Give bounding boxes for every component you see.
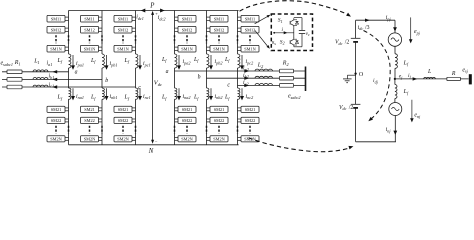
submodule SM12 (upper arm phase b conv2) bbox=[210, 26, 228, 33]
svg-text:R: R bbox=[451, 71, 456, 77]
current arrow i_nc2 bbox=[241, 88, 243, 97]
svg-text:−: − bbox=[155, 139, 158, 144]
ellipsis dots (lower arm phase b conv2) bbox=[218, 126, 220, 134]
svg-text:ina1: ina1 bbox=[76, 94, 84, 100]
wire phase c line left AC side bbox=[2, 86, 136, 88]
stub wires SM2N bbox=[65, 136, 69, 138]
node e_j junction bbox=[394, 78, 396, 80]
ground symbol bbox=[347, 74, 355, 76]
switch S1 (IGBT with diode) bbox=[293, 18, 295, 20]
arm inductor L_f upper phase c conv2 bbox=[238, 54, 240, 68]
svg-text:SM2N: SM2N bbox=[117, 137, 128, 142]
stub wires SM12 bbox=[175, 27, 179, 29]
arm inductor L_f lower phase c conv1 bbox=[136, 88, 138, 99]
submodule SM21 (lower arm phase c conv1) bbox=[114, 106, 132, 112]
inductor L1 phase a bbox=[33, 70, 48, 72]
current arrow i_pc1 bbox=[139, 55, 141, 67]
current arrow i_c2 bbox=[244, 84, 249, 87]
current arrow i_pa1 bbox=[72, 55, 74, 67]
wire phase a line left AC side bbox=[2, 71, 69, 73]
svg-text:O: O bbox=[359, 72, 364, 78]
switch S2 (IGBT with diode) bbox=[293, 38, 295, 40]
wire leg middle phase b conv1 bbox=[101, 68, 103, 88]
stub wires SM11 bbox=[99, 16, 103, 18]
arm inductor L_f upper (equivalent) bbox=[394, 46, 396, 54]
wire to node e_j bbox=[394, 68, 396, 79]
svg-text:ia2: ia2 bbox=[243, 66, 249, 72]
wire leg chain upper arm phase c converter 1 bbox=[135, 11, 137, 55]
SM input wire with current arrow i bbox=[274, 32, 294, 34]
submodule SM22 (lower arm phase b conv2) bbox=[210, 117, 228, 123]
svg-text:SM22: SM22 bbox=[51, 118, 62, 123]
AC source e_pj (upper arm) bbox=[388, 33, 401, 46]
svg-text:SM12: SM12 bbox=[84, 28, 95, 33]
svg-text:SM21: SM21 bbox=[118, 107, 129, 112]
svg-text:SM2N: SM2N bbox=[181, 137, 192, 142]
submodule SM2N (lower arm phase c conv1) bbox=[114, 136, 132, 142]
svg-text:SM22: SM22 bbox=[245, 118, 256, 123]
current arrow i_dc/3 bbox=[365, 19, 370, 22]
voltage arrow e_nj bbox=[411, 100, 413, 120]
svg-text:ipc2: ipc2 bbox=[246, 59, 254, 65]
wire N bus (bottom DC rail) bbox=[69, 144, 239, 146]
submodule SM11 (upper arm phase a conv1) bbox=[47, 15, 65, 22]
svg-text:esabc2: esabc2 bbox=[288, 94, 300, 100]
DC source V_dc/2 upper bbox=[351, 37, 361, 39]
svg-text:Lf: Lf bbox=[161, 57, 167, 63]
svg-text:Lf: Lf bbox=[161, 95, 167, 101]
wire leg chain lower arm phase a conv1 bbox=[68, 99, 70, 145]
svg-text:SM22: SM22 bbox=[118, 118, 129, 123]
inductor L output bbox=[424, 77, 436, 79]
svg-text:ipa1: ipa1 bbox=[76, 61, 84, 67]
svg-text:epj: epj bbox=[414, 29, 421, 35]
svg-text:inj: inj bbox=[386, 127, 392, 133]
arm inductor L_f upper phase a conv1 bbox=[69, 54, 71, 68]
submodule SM11 (upper arm phase c conv2) bbox=[241, 15, 259, 22]
svg-text:SM12: SM12 bbox=[118, 28, 129, 33]
svg-text:SM1N: SM1N bbox=[244, 47, 255, 52]
svg-text:ic2: ic2 bbox=[243, 80, 249, 86]
svg-text:/3: /3 bbox=[365, 25, 370, 31]
svg-text:SM11: SM11 bbox=[51, 17, 61, 22]
svg-text:inc1: inc1 bbox=[143, 94, 151, 100]
inductor L1 phase b bbox=[33, 78, 48, 80]
wire P bus (top DC rail) bbox=[69, 10, 239, 12]
current arrow i_b1 bbox=[52, 78, 57, 81]
stub wires SM11 bbox=[132, 16, 136, 18]
current arrow i_pa2 bbox=[178, 55, 180, 67]
svg-text:S1: S1 bbox=[278, 18, 283, 24]
ellipsis dots (upper arm phase b conv1) bbox=[89, 35, 91, 43]
svg-text:a: a bbox=[166, 69, 169, 75]
wire leg chain upper arm phase a converter 2 bbox=[174, 11, 176, 55]
stub wires SM21 bbox=[207, 107, 211, 109]
current arrow i_dc2 on P bus bbox=[160, 9, 165, 13]
svg-text:Lf: Lf bbox=[403, 89, 409, 95]
stub wires SM12 bbox=[99, 27, 103, 29]
ellipsis dots (upper arm phase c conv2) bbox=[249, 35, 251, 43]
svg-text:b: b bbox=[198, 74, 201, 80]
wire phase a line right AC side bbox=[175, 70, 306, 72]
svg-text:SM2N: SM2N bbox=[213, 137, 224, 142]
svg-text:idc: idc bbox=[358, 25, 364, 31]
arm inductor L_f upper phase b conv2 bbox=[207, 54, 209, 68]
dashed pointer arc top (phase leg to equivalent circuit) bbox=[240, 1, 349, 15]
svg-text:ipc1: ipc1 bbox=[143, 61, 151, 67]
inductor L2 phase b bbox=[255, 76, 273, 78]
svg-text:ina2: ina2 bbox=[183, 94, 191, 100]
wire leg middle phase c conv2 bbox=[237, 68, 239, 88]
capacitor C bbox=[301, 18, 303, 31]
current arrow i_pb2 bbox=[210, 55, 212, 67]
current arrow i_na1 bbox=[72, 88, 74, 97]
wire lower arm with current arrow i_nj bbox=[394, 116, 396, 142]
submodule SM22 (lower arm phase c conv1) bbox=[114, 117, 132, 123]
submodule SM22 (lower arm phase a conv1) bbox=[47, 117, 65, 123]
ellipsis dots (lower arm phase a conv1) bbox=[55, 126, 57, 134]
svg-text:L: L bbox=[427, 69, 431, 75]
svg-text:ipb2: ipb2 bbox=[215, 59, 223, 65]
wire equivalent circuit top rail bbox=[356, 19, 395, 21]
submodule SM1N (upper arm phase a conv1) bbox=[47, 45, 65, 52]
svg-text:SM1N: SM1N bbox=[117, 47, 128, 52]
submodule SM22 (lower arm phase c conv2) bbox=[241, 117, 259, 123]
svg-text:Lf: Lf bbox=[57, 95, 63, 101]
svg-text:SM2N: SM2N bbox=[50, 137, 61, 142]
submodule SM2N (lower arm phase a conv2) bbox=[178, 136, 196, 142]
stub wires SM2N bbox=[132, 136, 136, 138]
stub wires SM22 bbox=[99, 118, 103, 120]
svg-text:N: N bbox=[148, 148, 154, 155]
submodule SM2N (lower arm phase b conv1) bbox=[81, 136, 99, 142]
svg-text:Lf: Lf bbox=[403, 60, 409, 66]
submodule SM11 (upper arm phase a conv2) bbox=[178, 15, 196, 22]
svg-text:SM11: SM11 bbox=[214, 17, 224, 22]
submodule SM22 (lower arm phase b conv1) bbox=[81, 117, 99, 123]
submodule SM12 (upper arm phase c conv2) bbox=[241, 26, 259, 33]
stub wires SM1N bbox=[99, 46, 103, 48]
resistor R output bbox=[447, 77, 461, 80]
svg-text:a: a bbox=[75, 69, 78, 75]
submodule SM21 (lower arm phase c conv2) bbox=[241, 106, 259, 112]
stub wires SM22 bbox=[207, 118, 211, 120]
svg-text:ipj: ipj bbox=[386, 15, 392, 21]
svg-text:+: + bbox=[155, 11, 158, 16]
wire leg chain upper arm phase c converter 2 bbox=[237, 11, 239, 55]
submodule SM12 (upper arm phase c conv1) bbox=[114, 26, 132, 33]
svg-text:esj: esj bbox=[462, 67, 468, 73]
wire to AC source lower bbox=[394, 99, 396, 103]
wire upper arm with current arrow i_pj bbox=[394, 20, 396, 33]
submodule SM1N (upper arm phase c conv1) bbox=[114, 45, 132, 52]
svg-text:SM1N: SM1N bbox=[213, 47, 224, 52]
svg-text:Lf: Lf bbox=[90, 58, 96, 64]
voltage arrow e_pj bbox=[410, 17, 412, 40]
arm inductor L_f upper phase c conv1 bbox=[136, 54, 138, 68]
arm inductor L_f lower phase b conv2 bbox=[207, 88, 209, 99]
resistor R1 phase b bbox=[7, 78, 22, 82]
svg-text:SM2N: SM2N bbox=[84, 137, 95, 142]
ellipsis dots (upper arm phase b conv2) bbox=[218, 35, 220, 43]
current arrow i_pb1 bbox=[106, 55, 108, 67]
svg-text:ib2: ib2 bbox=[243, 73, 249, 79]
stub wires SM22 bbox=[175, 118, 179, 120]
svg-text:SM22: SM22 bbox=[84, 118, 95, 123]
current arrow i_c1 bbox=[52, 85, 57, 88]
svg-text:SM21: SM21 bbox=[84, 107, 95, 112]
wire lower arm from node bbox=[394, 79, 396, 85]
current arrow i_b2 bbox=[244, 77, 249, 80]
stub wires SM2N bbox=[175, 136, 179, 138]
terminal bar e_sj bbox=[469, 74, 472, 84]
arm inductor L_f lower phase a conv1 bbox=[69, 88, 71, 99]
current arrow i_dc1 on P bus bbox=[141, 9, 146, 13]
submodule SM11 (upper arm phase c conv1) bbox=[114, 15, 132, 22]
arm inductor L_f lower (equivalent) bbox=[395, 85, 397, 99]
wire equivalent circuit bottom rail bbox=[356, 141, 396, 143]
svg-text:/2: /2 bbox=[349, 105, 354, 111]
wire leg chain lower arm phase b conv1 bbox=[101, 99, 103, 145]
svg-text:ia1: ia1 bbox=[47, 61, 53, 67]
submodule SM12 (upper arm phase b conv1) bbox=[81, 26, 99, 33]
svg-text:SM11: SM11 bbox=[118, 17, 128, 22]
current arrow i_na2 bbox=[178, 88, 180, 97]
svg-text:c: c bbox=[138, 85, 141, 91]
svg-text:Vdc: Vdc bbox=[339, 105, 347, 111]
resistor R2 phase a bbox=[280, 69, 294, 73]
ellipsis dots (upper arm phase a conv2) bbox=[186, 35, 188, 43]
stub wires SM11 bbox=[207, 16, 211, 18]
ellipsis dots (lower arm phase a conv2) bbox=[186, 126, 188, 134]
inductor L2 phase c bbox=[255, 84, 273, 86]
stub wires SM2N bbox=[207, 136, 211, 138]
stub wires SM12 bbox=[207, 27, 211, 29]
stub wires SM11 bbox=[65, 16, 69, 18]
resistor R2 phase b bbox=[280, 76, 294, 80]
submodule SM1N (upper arm phase a conv2) bbox=[178, 45, 196, 52]
stub wires SM12 bbox=[132, 27, 136, 29]
svg-text:Lf: Lf bbox=[193, 57, 199, 63]
wire equivalent circuit left rail middle bbox=[355, 42, 357, 104]
current arrow i_a2 bbox=[244, 69, 249, 72]
dashed circulating current arc i_dj bbox=[364, 31, 391, 120]
wire leg middle phase b conv2 bbox=[206, 68, 208, 88]
wire phase b line right AC side bbox=[207, 77, 306, 79]
stub wires SM22 bbox=[238, 118, 242, 120]
current arrow i_nb2 bbox=[210, 88, 212, 97]
wire leg chain lower arm phase b conv2 bbox=[206, 99, 208, 145]
svg-text:SM21: SM21 bbox=[182, 107, 193, 112]
svg-text:ipa2: ipa2 bbox=[183, 59, 191, 65]
wire leg middle phase a conv1 bbox=[68, 68, 70, 88]
arm inductor L_f lower phase a conv2 bbox=[175, 88, 177, 99]
ellipsis dots (lower arm phase b conv1) bbox=[89, 126, 91, 134]
DC source V_dc/2 lower bbox=[351, 103, 361, 105]
stub wires SM1N bbox=[207, 46, 211, 48]
svg-text:Lf: Lf bbox=[57, 58, 63, 64]
resistor R1 phase c bbox=[7, 85, 22, 89]
svg-text:SM1N: SM1N bbox=[50, 47, 61, 52]
ellipsis dots (upper arm phase a conv1) bbox=[55, 35, 57, 43]
SM rail wires bbox=[293, 27, 295, 38]
svg-text:SM2N: SM2N bbox=[244, 137, 255, 142]
svg-text:SM22: SM22 bbox=[182, 118, 193, 123]
inductor L2 phase a bbox=[255, 69, 273, 71]
submodule SM12 (upper arm phase a conv1) bbox=[47, 26, 65, 33]
svg-text:SM12: SM12 bbox=[182, 28, 193, 33]
svg-text:P: P bbox=[149, 2, 154, 9]
svg-text:Lf: Lf bbox=[124, 95, 130, 101]
stub wires SM1N bbox=[238, 46, 242, 48]
AC source e_nj (lower arm) bbox=[389, 103, 402, 116]
svg-text:SM11: SM11 bbox=[245, 17, 255, 22]
submodule SM11 (upper arm phase b conv1) bbox=[81, 15, 99, 22]
voltage arrow V_dc (DC-link measurement line P to N) bbox=[152, 13, 154, 142]
wire equivalent circuit left rail upper bbox=[355, 20, 357, 38]
stub wires SM21 bbox=[175, 107, 179, 109]
svg-text:b: b bbox=[105, 78, 108, 84]
wire leg chain lower arm phase a conv2 bbox=[174, 99, 176, 145]
submodule SM22 (lower arm phase a conv2) bbox=[178, 117, 196, 123]
node O with ground bbox=[354, 72, 356, 74]
svg-text:Lf: Lf bbox=[124, 58, 130, 64]
svg-text:Lf: Lf bbox=[193, 95, 199, 101]
submodule SM21 (lower arm phase a conv1) bbox=[47, 106, 65, 112]
svg-text:ic1: ic1 bbox=[49, 82, 55, 88]
svg-text:SM11: SM11 bbox=[182, 17, 192, 22]
svg-text:c: c bbox=[227, 82, 230, 88]
stub wires SM1N bbox=[65, 46, 69, 48]
svg-text:SM21: SM21 bbox=[51, 107, 62, 112]
stub wires SM21 bbox=[65, 107, 69, 109]
submodule SM1N (upper arm phase b conv2) bbox=[210, 45, 228, 52]
dashed pointer arc bottom (phase leg to equivalent circuit) bbox=[249, 138, 351, 152]
dashed detail box (submodule) bbox=[271, 14, 312, 51]
svg-text:inc2: inc2 bbox=[246, 94, 254, 100]
submodule SM2N (lower arm phase a conv1) bbox=[47, 136, 65, 142]
submodule SM2N (lower arm phase b conv2) bbox=[210, 136, 228, 142]
svg-text:ib1: ib1 bbox=[49, 74, 55, 80]
arm inductor L_f lower phase c conv2 bbox=[238, 88, 240, 99]
SM top wire bbox=[294, 17, 302, 19]
svg-text:S2: S2 bbox=[280, 39, 285, 45]
inductor L1 phase c bbox=[33, 85, 48, 87]
stub wires SM2N bbox=[238, 136, 242, 138]
resistor R2 phase c bbox=[280, 84, 294, 88]
wire leg chain lower arm phase c conv2 bbox=[237, 99, 239, 145]
terminal bar e_sabc2 bbox=[305, 67, 307, 92]
svg-text:SM21: SM21 bbox=[214, 107, 225, 112]
ellipsis dots (lower arm phase c conv1) bbox=[122, 126, 124, 134]
stub wires SM1N bbox=[132, 46, 136, 48]
svg-text:/2: /2 bbox=[345, 40, 350, 46]
svg-text:Lf: Lf bbox=[224, 95, 230, 101]
wire phase b line left AC side bbox=[2, 78, 102, 80]
svg-text:L2: L2 bbox=[257, 63, 263, 69]
svg-text:Lf: Lf bbox=[90, 95, 96, 101]
wire leg chain lower arm phase c conv1 bbox=[135, 99, 137, 145]
svg-text:SM12: SM12 bbox=[245, 28, 256, 33]
submodule SM1N (upper arm phase b conv1) bbox=[81, 45, 99, 52]
svg-text:R2: R2 bbox=[282, 61, 289, 67]
svg-text:Vdc: Vdc bbox=[335, 40, 343, 46]
resistor R1 phase a bbox=[7, 70, 22, 74]
wire phase c line right AC side bbox=[238, 84, 306, 86]
svg-text:esabc1: esabc1 bbox=[1, 61, 13, 67]
svg-text:Lf: Lf bbox=[224, 57, 230, 63]
wire leg chain upper arm phase a converter 1 bbox=[68, 11, 70, 55]
stub wires SM22 bbox=[65, 118, 69, 120]
stub wires SM21 bbox=[99, 107, 103, 109]
current arrow i_nc1 bbox=[139, 88, 141, 97]
svg-text:enj: enj bbox=[414, 113, 421, 119]
stub wires SM21 bbox=[132, 107, 136, 109]
submodule SM11 (upper arm phase b conv2) bbox=[210, 15, 228, 22]
stub wires SM22 bbox=[132, 118, 136, 120]
current arrow i_j bbox=[413, 77, 418, 80]
stub wires SM11 bbox=[238, 16, 242, 18]
ellipsis dots (lower arm phase c conv2) bbox=[249, 126, 251, 134]
svg-text:SM11: SM11 bbox=[84, 17, 94, 22]
zoom wedge line lower (SM12 to detail box) bbox=[255, 30, 268, 47]
wire equivalent circuit left rail lower bbox=[355, 108, 357, 142]
arm inductor L_f upper phase a conv2 bbox=[175, 54, 177, 68]
current arrow i_pc2 bbox=[241, 55, 243, 67]
submodule SM21 (lower arm phase b conv2) bbox=[210, 106, 228, 112]
stub wires SM21 bbox=[238, 107, 242, 109]
submodule SM12 (upper arm phase a conv2) bbox=[178, 26, 196, 33]
svg-text:idc1: idc1 bbox=[136, 15, 144, 21]
wire leg chain upper arm phase b converter 1 bbox=[101, 11, 103, 55]
SM bottom wire bbox=[294, 46, 302, 48]
arm inductor L_f upper phase b conv1 bbox=[102, 54, 104, 68]
svg-text:SM12: SM12 bbox=[214, 28, 225, 33]
submodule SM1N (upper arm phase c conv2) bbox=[241, 45, 259, 52]
svg-text:L1: L1 bbox=[33, 59, 39, 65]
svg-text:inb1: inb1 bbox=[110, 94, 118, 100]
current arrow i_nb1 bbox=[106, 88, 108, 97]
arm inductor L_f lower phase b conv1 bbox=[102, 88, 104, 99]
wire output branch bbox=[395, 78, 469, 80]
svg-text:SM1N: SM1N bbox=[84, 47, 95, 52]
svg-text:R1: R1 bbox=[14, 60, 21, 66]
submodule SM2N (lower arm phase c conv2) bbox=[241, 136, 259, 142]
submodule SM21 (lower arm phase a conv2) bbox=[178, 106, 196, 112]
stub wires SM2N bbox=[99, 136, 103, 138]
svg-text:ipb1: ipb1 bbox=[110, 61, 118, 67]
wire leg middle phase a conv2 bbox=[174, 68, 176, 88]
stub wires SM1N bbox=[175, 46, 179, 48]
ellipsis dots (upper arm phase c conv1) bbox=[122, 35, 124, 43]
wire leg chain upper arm phase b converter 2 bbox=[206, 11, 208, 55]
zoom wedge line upper (SM12 to detail box) bbox=[255, 16, 269, 24]
svg-text:SM1N: SM1N bbox=[181, 47, 192, 52]
stub wires SM11 bbox=[175, 16, 179, 18]
stub wires SM12 bbox=[238, 27, 242, 29]
svg-text:SM12: SM12 bbox=[51, 28, 62, 33]
svg-text:idc2: idc2 bbox=[158, 15, 166, 21]
stub wires SM12 bbox=[65, 27, 69, 29]
submodule SM21 (lower arm phase b conv1) bbox=[81, 106, 99, 112]
svg-text:inb2: inb2 bbox=[215, 94, 223, 100]
wire leg middle phase c conv1 bbox=[135, 68, 137, 88]
svg-text:SM21: SM21 bbox=[245, 107, 256, 112]
svg-text:SM22: SM22 bbox=[214, 118, 225, 123]
current arrow i_a1 bbox=[52, 70, 57, 73]
